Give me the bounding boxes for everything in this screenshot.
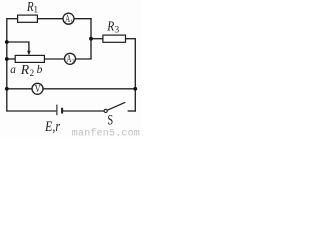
svg-text:E,r: E,r — [44, 119, 60, 135]
svg-text:a: a — [10, 62, 16, 76]
svg-text:S: S — [107, 112, 113, 128]
svg-text:1: 1 — [70, 18, 73, 25]
svg-text:b: b — [37, 62, 43, 76]
svg-text:1: 1 — [34, 4, 39, 14]
svg-text:V: V — [35, 83, 41, 95]
svg-text:2: 2 — [72, 58, 75, 65]
svg-text:2: 2 — [30, 68, 34, 78]
svg-text:manfen5.com: manfen5.com — [72, 127, 140, 137]
svg-text:3: 3 — [115, 24, 120, 34]
svg-text:R: R — [20, 62, 30, 77]
